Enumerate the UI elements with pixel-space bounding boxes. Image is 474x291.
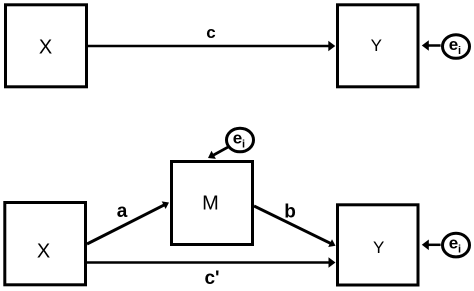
svg-text:i: i: [242, 139, 245, 151]
svg-text:a: a: [117, 201, 128, 222]
svg-text:e: e: [233, 129, 242, 148]
box X (top, exogenous variable): [6, 5, 87, 87]
svg-text:e: e: [449, 35, 458, 54]
arrow e_i to Y (bottom): [422, 240, 441, 251]
svg-text:e: e: [449, 234, 458, 253]
box X (bottom, exogenous variable): [5, 203, 86, 285]
svg-text:Y: Y: [371, 36, 382, 55]
svg-text:Y: Y: [373, 238, 384, 257]
svg-text:c: c: [206, 23, 215, 42]
error term e_i (top right): [443, 35, 470, 59]
error term e_i (above M): [227, 128, 254, 152]
arrow e_i to M: [208, 147, 229, 159]
svg-text:i: i: [458, 244, 461, 256]
svg-text:X: X: [37, 241, 50, 263]
arrow b (M to Y): [254, 206, 336, 247]
box Y (bottom, outcome variable): [338, 205, 419, 285]
error term e_i (bottom right): [443, 233, 470, 257]
svg-text:c': c': [204, 268, 219, 289]
arrow c' (X to Y, direct effect): [87, 257, 336, 268]
svg-text:i: i: [458, 45, 461, 57]
box Y (top, outcome variable): [338, 5, 419, 87]
arrow a (X to M): [87, 201, 169, 244]
svg-text:b: b: [284, 202, 296, 223]
arrow c (X to Y, total effect): [88, 41, 335, 52]
arrow e_i to Y (top): [422, 40, 441, 51]
svg-text:M: M: [202, 193, 219, 215]
svg-text:X: X: [39, 37, 52, 59]
box M (mediator variable): [172, 162, 253, 245]
